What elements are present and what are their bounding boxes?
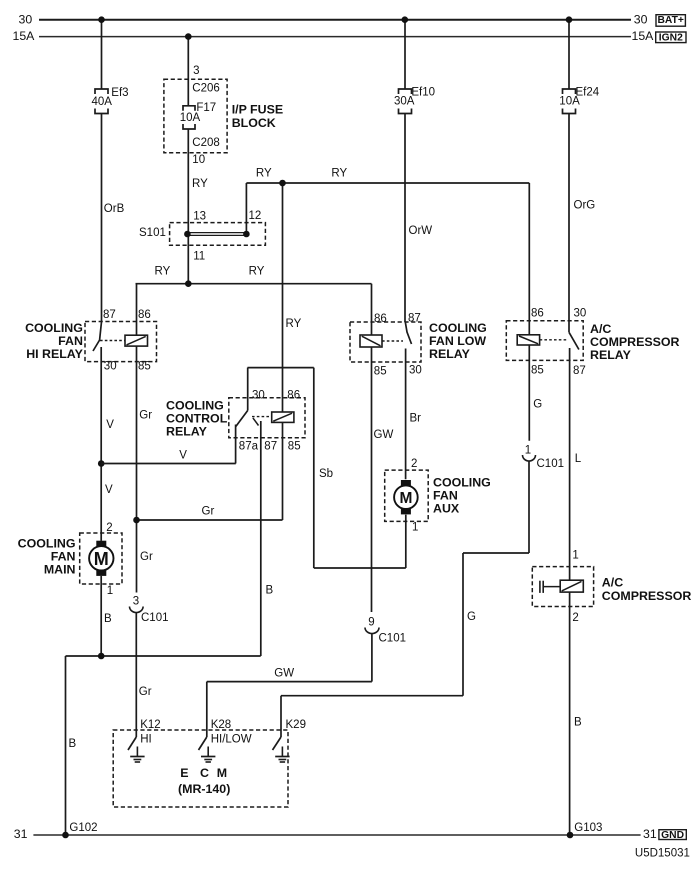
svg-text:1: 1 [525,445,531,457]
svg-text:CONTROL: CONTROL [166,412,228,426]
svg-text:30: 30 [634,13,648,27]
svg-text:(MR-140): (MR-140) [178,782,230,796]
svg-text:86: 86 [287,390,300,402]
svg-text:M: M [94,549,109,569]
svg-text:12: 12 [249,210,262,222]
svg-text:30: 30 [574,307,587,319]
svg-text:K29: K29 [286,719,306,731]
svg-text:C101: C101 [537,458,565,470]
svg-text:85: 85 [374,366,387,378]
svg-text:G: G [467,611,476,623]
svg-text:10A: 10A [180,112,201,124]
svg-text:RELAY: RELAY [166,425,208,439]
svg-text:Gr: Gr [202,506,215,518]
svg-text:FAN: FAN [51,550,76,564]
svg-text:Gr: Gr [140,551,153,563]
svg-text:GW: GW [374,429,394,441]
svg-text:GND: GND [661,830,684,841]
svg-text:RELAY: RELAY [590,348,632,362]
svg-text:FAN: FAN [58,334,83,348]
svg-text:86: 86 [138,309,151,321]
svg-text:87: 87 [264,440,277,452]
svg-text:13: 13 [193,210,206,222]
svg-text:K28: K28 [211,719,231,731]
svg-text:10A: 10A [559,95,580,107]
svg-text:G: G [533,399,542,411]
svg-text:K12: K12 [140,719,160,731]
svg-text:15A: 15A [632,29,655,43]
svg-text:OrG: OrG [574,200,596,212]
svg-text:85: 85 [138,361,151,373]
svg-text:RY: RY [155,266,171,278]
svg-text:87: 87 [573,365,586,377]
svg-text:3: 3 [133,596,139,608]
svg-text:I/P FUSE: I/P FUSE [232,102,283,116]
svg-text:1: 1 [572,550,578,562]
svg-text:FAN LOW: FAN LOW [429,334,486,348]
svg-text:C: C [200,766,209,780]
svg-text:85: 85 [531,365,544,377]
svg-text:COOLING: COOLING [166,399,224,413]
svg-text:E: E [180,766,188,780]
svg-text:15A: 15A [13,29,36,43]
svg-text:COOLING: COOLING [429,321,487,335]
svg-text:1: 1 [107,585,113,597]
svg-text:86: 86 [374,313,387,325]
svg-text:L: L [575,453,582,465]
svg-text:BAT+: BAT+ [657,15,683,26]
svg-text:30: 30 [19,13,33,27]
svg-text:BLOCK: BLOCK [232,116,276,130]
svg-text:RY: RY [331,168,347,180]
svg-text:B: B [69,738,77,750]
svg-text:OrB: OrB [104,203,125,215]
svg-text:B: B [266,585,274,597]
svg-text:RELAY: RELAY [429,347,471,361]
svg-text:MAIN: MAIN [44,563,76,577]
svg-text:B: B [104,613,112,625]
svg-text:U5D15031: U5D15031 [635,847,690,859]
svg-text:40A: 40A [92,96,113,108]
svg-text:2: 2 [106,522,112,534]
svg-text:10: 10 [192,154,205,166]
svg-text:V: V [105,484,113,496]
svg-text:S101: S101 [139,227,166,239]
svg-text:A/C: A/C [602,575,623,589]
svg-text:COOLING: COOLING [18,537,76,551]
svg-text:30A: 30A [394,95,415,107]
svg-text:2: 2 [572,612,578,624]
svg-text:87: 87 [408,312,421,324]
svg-text:87: 87 [103,309,116,321]
svg-text:86: 86 [531,307,544,319]
svg-text:HI: HI [140,734,152,746]
svg-text:C208: C208 [192,137,220,149]
svg-text:RY: RY [286,318,302,330]
svg-text:G103: G103 [574,822,602,834]
svg-text:30: 30 [252,390,265,402]
svg-text:A/C: A/C [590,322,611,336]
svg-text:AUX: AUX [433,502,460,516]
svg-text:3: 3 [193,65,199,77]
svg-text:Gr: Gr [139,686,152,698]
svg-text:30: 30 [104,361,117,373]
svg-text:87a: 87a [239,440,259,452]
svg-text:RY: RY [192,178,208,190]
svg-text:V: V [179,449,187,461]
svg-text:30: 30 [409,365,422,377]
svg-text:COOLING: COOLING [433,476,491,490]
svg-text:9: 9 [368,617,374,629]
svg-text:31: 31 [643,827,657,841]
svg-text:Ef10: Ef10 [411,87,435,99]
svg-text:COMPRESSOR: COMPRESSOR [602,589,692,603]
svg-text:M: M [399,490,412,507]
svg-text:RY: RY [256,168,272,180]
svg-text:V: V [106,419,114,431]
svg-text:85: 85 [288,440,301,452]
svg-text:C101: C101 [379,633,407,645]
svg-text:Ef3: Ef3 [111,87,128,99]
svg-text:2: 2 [411,458,417,470]
svg-text:1: 1 [412,522,418,534]
svg-text:OrW: OrW [409,225,433,237]
svg-text:FAN: FAN [433,489,458,503]
svg-text:COOLING: COOLING [25,321,83,335]
svg-text:Sb: Sb [319,468,333,480]
svg-text:HI/LOW: HI/LOW [211,734,252,746]
svg-text:11: 11 [193,251,205,263]
svg-text:M: M [217,766,227,780]
svg-text:G102: G102 [69,822,97,834]
svg-text:IGN2: IGN2 [659,32,683,43]
svg-text:GW: GW [274,668,294,680]
svg-text:31: 31 [14,827,28,841]
svg-text:Br: Br [410,412,422,424]
svg-text:Gr: Gr [139,410,152,422]
svg-text:B: B [574,717,582,729]
svg-text:C206: C206 [192,82,220,94]
svg-text:HI RELAY: HI RELAY [26,347,83,361]
svg-text:C101: C101 [141,612,169,624]
svg-text:RY: RY [249,266,265,278]
